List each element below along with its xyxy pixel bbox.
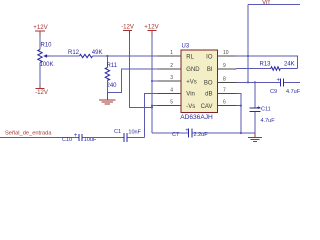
- svg-text:RL: RL: [186, 54, 194, 60]
- svg-text:C11: C11: [261, 107, 271, 113]
- svg-text:+: +: [185, 128, 189, 134]
- wire C10 to C1: [83, 137, 124, 139]
- pin 6 CAV: [201, 100, 237, 110]
- pin 5 -Vs: [158, 100, 196, 110]
- svg-text:C7: C7: [172, 132, 179, 138]
- ground (bottom right): [248, 133, 262, 142]
- svg-text:R12: R12: [68, 50, 80, 56]
- wire C7 run (from +12V rail corner to ground node): [152, 132, 255, 134]
- svg-text:6: 6: [223, 100, 226, 106]
- wire to pin3: [152, 80, 158, 82]
- svg-text:Señal_de_entrada: Señal_de_entrada: [5, 130, 52, 136]
- wire pot top: [39, 35, 41, 50]
- wire Vin riser to pin4: [144, 93, 157, 137]
- svg-text:CAV: CAV: [201, 104, 213, 110]
- capacitor C9 4.7uF: [270, 78, 301, 96]
- capacitor C1 10nF: [114, 129, 142, 142]
- svg-text:2: 2: [170, 63, 173, 69]
- capacitor C7 2.2uF: [172, 128, 208, 138]
- svg-text:BO: BO: [204, 81, 213, 87]
- pin 1 RL: [158, 50, 195, 60]
- wire Vrf vertical down to pin8 net: [247, 5, 249, 83]
- svg-text:C1: C1: [114, 129, 121, 135]
- resistor R11 240: [105, 63, 118, 89]
- svg-text:C10: C10: [62, 137, 72, 143]
- net Vrf top right: [248, 0, 300, 6]
- ground (below R11): [99, 92, 116, 104]
- pin 9 BI: [207, 63, 237, 73]
- wire C11 feed down from pin8 net: [254, 82, 256, 107]
- wire R12 to pin1: [93, 55, 158, 57]
- svg-text:9: 9: [223, 63, 226, 69]
- wire to pin5: [152, 105, 158, 107]
- pin 4 Vin: [158, 87, 195, 97]
- svg-text:-12V: -12V: [121, 23, 135, 30]
- svg-text:4: 4: [170, 87, 173, 93]
- wire pin6 pin7 join vertical: [237, 93, 241, 133]
- svg-text:+Vs: +Vs: [186, 79, 197, 85]
- svg-text:7: 7: [223, 87, 226, 93]
- svg-text:24K: 24K: [284, 61, 295, 67]
- svg-text:10nF: 10nF: [128, 129, 141, 135]
- pin 10 IO: [206, 50, 236, 60]
- wire R11 top: [106, 56, 108, 68]
- svg-text:Vin: Vin: [186, 92, 195, 98]
- resistor R13 24K: [260, 61, 295, 70]
- pin 7 dB: [205, 87, 236, 97]
- wire colors: blue #5A5AB2, pin stubs #4a4a4a, power red #A63232: [0, 0, 301, 143]
- resistor R12 49K: [68, 50, 102, 58]
- svg-text:4.7uF: 4.7uF: [286, 89, 300, 95]
- power +12V (left, above R10): [33, 24, 48, 35]
- svg-text:-Vs: -Vs: [186, 104, 195, 110]
- svg-text:AD636AJH: AD636AJH: [180, 114, 213, 121]
- potentiometer R10 100K: [38, 43, 54, 68]
- svg-text:R13: R13: [260, 61, 272, 67]
- svg-text:Vrf: Vrf: [262, 0, 270, 6]
- wire +12V rail down to C7 wire: [151, 35, 153, 134]
- pin 2 GND: [158, 63, 201, 73]
- svg-text:BI: BI: [207, 67, 213, 73]
- svg-text:dB: dB: [205, 92, 212, 98]
- svg-text:GND: GND: [186, 67, 200, 73]
- svg-text:240: 240: [107, 83, 118, 89]
- svg-text:10: 10: [223, 50, 229, 56]
- svg-text:IO: IO: [206, 54, 213, 60]
- svg-text:-12V: -12V: [35, 89, 49, 96]
- wire R11 bottom to GND and up to pin2: [107, 69, 157, 92]
- power +12V (middle): [144, 23, 159, 34]
- svg-text:+: +: [74, 133, 78, 139]
- node R11 top junction: [106, 55, 108, 57]
- svg-text:8: 8: [223, 76, 226, 82]
- svg-text:5: 5: [170, 100, 173, 106]
- svg-text:3: 3: [170, 75, 173, 81]
- capacitor C11 4.7uF: [250, 106, 276, 125]
- svg-text:U3: U3: [182, 44, 190, 50]
- wire pin9 to R13: [237, 68, 271, 70]
- svg-text:+12V: +12V: [144, 23, 159, 30]
- wire C1 to Vin riser: [128, 137, 145, 139]
- svg-text:49K: 49K: [92, 50, 103, 56]
- wire -12V rail down to pin5 net: [130, 35, 153, 108]
- capacitor C10 10uF: [62, 133, 97, 143]
- svg-text:R11: R11: [107, 63, 118, 69]
- wire C9 to right edge: [284, 81, 300, 83]
- svg-text:+12V: +12V: [33, 24, 48, 31]
- wire R13 to right corner: [280, 68, 297, 70]
- power -12V (below R10): [35, 85, 49, 96]
- svg-text:1: 1: [170, 50, 173, 56]
- wire C11 bottom to ground node: [254, 112, 256, 133]
- pin 3 +Vs: [158, 75, 197, 85]
- svg-text:C9: C9: [270, 89, 277, 95]
- svg-text:R10: R10: [41, 43, 53, 49]
- wire pot bottom: [39, 63, 41, 85]
- wire pin8 output: [237, 81, 280, 83]
- svg-text:100K: 100K: [40, 62, 54, 68]
- power -12V (middle): [121, 23, 135, 34]
- svg-text:4.7uF: 4.7uF: [261, 118, 276, 124]
- svg-text:+: +: [277, 78, 281, 84]
- wire wiper to R12: [49, 55, 80, 57]
- pin 8 BO: [204, 76, 237, 86]
- op-amp U3 AD636AJH body: [180, 44, 217, 121]
- wire pin10 to right edge corner: [237, 56, 298, 69]
- svg-text:2.2uF: 2.2uF: [194, 132, 209, 138]
- wire input from left edge: [0, 137, 79, 139]
